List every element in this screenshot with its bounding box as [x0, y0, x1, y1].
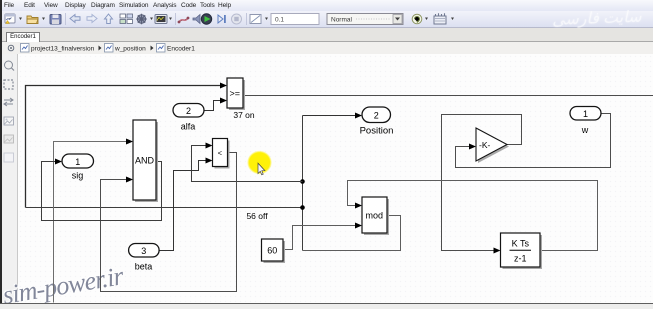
wire: w outport loop into gain input: [456, 114, 611, 168]
watermark top right: [552, 6, 653, 30]
back arrow icon: [70, 15, 80, 23]
toolbar: [0, 11, 653, 28]
node junction dot lower: [300, 205, 305, 210]
wire: < output 56 off loop to AND input 2: [101, 153, 237, 292]
arrow into >= input 1: [220, 83, 227, 89]
svg-text:Encoder1: Encoder1: [167, 45, 195, 52]
stop time field: [271, 14, 319, 25]
wire: vertical trunk from mod output up to Position: [302, 116, 304, 251]
connect icon: [178, 17, 190, 24]
wire: junction to relational < input 1: [192, 143, 303, 182]
gain -K- triangle: [476, 128, 509, 163]
open icon: [27, 16, 45, 24]
update diagram icon: [412, 14, 428, 24]
label 37 on: [233, 110, 255, 120]
wire: bottom horizontal junction to >= loop: [26, 207, 303, 209]
wire: feedback to relational >= input 1: [26, 86, 222, 208]
step forward button: [218, 15, 226, 23]
forward arrow icon: [87, 15, 97, 23]
svg-text:0.1: 0.1: [275, 17, 284, 24]
label alfa: [181, 122, 196, 132]
discrete integrator K Ts / z-1 block: [501, 233, 543, 269]
outport 2 Position oval: [362, 107, 391, 123]
relational operator >= block 37 on: [227, 78, 245, 110]
svg-text:project13_finalversion: project13_finalversion: [31, 45, 95, 52]
separator: [246, 13, 248, 25]
sample time icon: [250, 15, 268, 24]
separator: [175, 13, 177, 25]
logical operator AND: [133, 120, 158, 202]
wire: >= output 37 on, off screen right: [243, 95, 653, 97]
wire: constant 60 to mod input 2: [283, 223, 362, 250]
svg-text:Normal: Normal: [331, 17, 353, 24]
stop button disabled: [232, 14, 242, 24]
math function mod block: [362, 197, 389, 235]
new model icon: [5, 14, 22, 24]
label Position: [360, 126, 394, 137]
label w: [581, 125, 589, 135]
svg-text:w_position: w_position: [114, 45, 146, 52]
menu bar: [0, 0, 653, 11]
outport 1 sig oval: [62, 154, 94, 168]
mode combo: [327, 14, 403, 25]
tab bar: [0, 28, 653, 42]
bottom bar: [0, 303, 653, 309]
left palette: [0, 54, 18, 303]
label sig: [72, 171, 84, 181]
library browser icon: [120, 14, 133, 24]
constant 60 block: [262, 239, 286, 263]
wire: alfa to >= input 2: [204, 98, 227, 111]
label 56 off: [246, 211, 268, 221]
inport 2 alfa oval: [173, 104, 204, 118]
relational operator < block 56 off: [213, 139, 230, 169]
node junction dot upper: [300, 179, 305, 184]
save icon: [50, 15, 61, 25]
cursor highlight yellow: [247, 151, 272, 175]
run button: [201, 14, 211, 24]
left window border: [0, 0, 2, 309]
scope icon: [155, 15, 172, 24]
watermark sim-power.ir: [1, 261, 125, 309]
separator: [65, 13, 67, 25]
inport 3 beta oval: [129, 244, 160, 258]
library icon: [434, 13, 454, 24]
wire: mod output return loop: [303, 216, 401, 251]
wire: AND output loop into sig outport: [42, 159, 162, 221]
canvas: [18, 54, 653, 303]
up arrow icon: [105, 14, 113, 24]
wire: beta to < input 2: [159, 158, 213, 251]
wire: trunk to Position outport: [303, 113, 363, 119]
wire: gain output down to K Ts input: [442, 115, 522, 254]
horn icon: [193, 15, 200, 24]
breadcrumb: [0, 42, 653, 55]
wire: AND input 1 from below off-screen: [54, 139, 134, 303]
outport 1 w oval: [570, 107, 601, 121]
wire: K Ts output loop to mod input 1: [348, 181, 598, 251]
mouse pointer: [258, 163, 265, 175]
label beta: [135, 262, 153, 272]
gear icon: [136, 14, 146, 24]
